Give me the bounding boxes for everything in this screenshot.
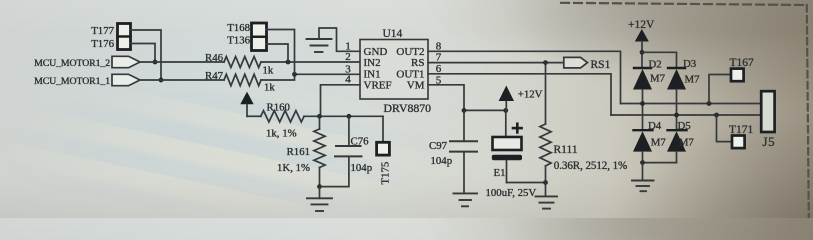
- resistor R47: [224, 74, 261, 85]
- port MCU_MOTOR1_2: [112, 56, 140, 67]
- svg-text:M7: M7: [651, 137, 667, 149]
- svg-text:M7: M7: [679, 137, 695, 149]
- svg-text:E1: E1: [494, 167, 506, 179]
- junction E1/R111 ground node: [543, 180, 548, 185]
- junction D3/D5 node on OUT1: [674, 113, 679, 118]
- junction VM/C97: [462, 108, 467, 113]
- svg-text:C76: C76: [351, 136, 370, 148]
- power arrow above R160: [240, 92, 253, 117]
- junction RS/R111: [543, 60, 548, 65]
- svg-text:2: 2: [345, 51, 351, 63]
- sheet border dashed top: [561, 3, 806, 5]
- wire T177 pin to MCU_MOTOR1_1 net: [131, 30, 162, 80]
- testpoint T171: [717, 115, 745, 148]
- diode D3: [667, 68, 686, 130]
- svg-text:J5: J5: [763, 134, 776, 149]
- resistor R161: [314, 116, 325, 186]
- plus sign E1: [512, 123, 523, 134]
- electrolytic capacitor E1: [492, 110, 522, 182]
- svg-text:U14: U14: [383, 28, 403, 40]
- svg-text:VM: VM: [407, 79, 425, 91]
- junction VREF node at R161: [317, 114, 322, 119]
- testpoint T167: [709, 69, 744, 104]
- svg-text:D4: D4: [648, 120, 662, 132]
- wire T176 pin to MCU_MOTOR1_2 net: [131, 44, 156, 63]
- svg-text:MCU_MOTOR1_2: MCU_MOTOR1_2: [34, 58, 110, 69]
- port RS1: [564, 57, 588, 68]
- svg-text:104p: 104p: [431, 155, 453, 167]
- capacitor C97: [450, 110, 477, 192]
- wire T168 pin to IN1 net: [267, 30, 295, 75]
- diode D4: [633, 130, 653, 162]
- junction VM/E1/+12V: [503, 108, 508, 113]
- wire pin4 VREF to rail: [321, 85, 361, 114]
- resistor R46: [224, 57, 261, 68]
- VM rail wire: [464, 109, 506, 111]
- svg-text:+12V: +12V: [518, 88, 543, 100]
- svg-text:1K, 1%: 1K, 1%: [277, 162, 310, 174]
- svg-text:T177: T177: [91, 25, 114, 37]
- svg-text:+12V: +12V: [628, 19, 655, 31]
- wire MOTOR1_1 net: port to R47: [140, 79, 224, 81]
- junction T168 on IN1 net: [292, 72, 297, 77]
- IC U14 DRV8870: [360, 40, 428, 100]
- svg-text:IN2: IN2: [364, 57, 381, 69]
- VREF rail wire: [320, 115, 384, 117]
- wire OUT2 to J5 pin1: [621, 103, 762, 105]
- svg-text:R161: R161: [287, 146, 310, 158]
- connector J5: [761, 91, 774, 132]
- svg-text:T168: T168: [227, 22, 250, 34]
- svg-text:T171: T171: [729, 124, 754, 136]
- junction +12V branch: [640, 50, 645, 55]
- svg-text:RS: RS: [411, 57, 424, 69]
- ground at pin1: [307, 39, 332, 52]
- svg-text:D5: D5: [678, 120, 691, 132]
- svg-text:R47: R47: [205, 70, 224, 82]
- wire R161 bottom to C76 bottom: [320, 156, 349, 186]
- resistor R111: [540, 63, 551, 196]
- svg-text:R46: R46: [205, 52, 224, 64]
- diode D2: [633, 68, 652, 130]
- wire +12V branch to D3: [642, 52, 677, 68]
- sheet border dashed right: [807, 5, 809, 218]
- wire pin7 RS: [428, 62, 564, 64]
- ground below R111/E1: [536, 196, 558, 208]
- svg-text:1k: 1k: [263, 65, 274, 77]
- power +12V top right: [635, 29, 649, 68]
- svg-text:D2: D2: [649, 58, 662, 70]
- junction at C76 drop: [347, 114, 352, 119]
- wire pin6 OUT1: [428, 74, 611, 115]
- svg-text:R160: R160: [267, 101, 290, 113]
- svg-text:0.36R, 2512, 1%: 0.36R, 2512, 1%: [554, 160, 627, 172]
- wire E1 bottom to R111 bottom: [507, 182, 546, 184]
- svg-text:T136: T136: [227, 35, 250, 47]
- svg-text:RS1: RS1: [591, 59, 611, 71]
- wire R46 to IC pin2 IN2: [261, 61, 360, 63]
- wire D4/D5 anodes to ground: [643, 162, 677, 164]
- svg-text:VREF: VREF: [364, 79, 392, 91]
- ground below R161: [307, 187, 332, 211]
- junction D4 ground node: [640, 160, 645, 165]
- svg-text:104p: 104p: [351, 162, 373, 174]
- svg-text:T175: T175: [380, 162, 392, 185]
- power +12V at VM: [499, 86, 514, 111]
- wire MOTOR1_2 net: port to R46: [140, 61, 224, 63]
- svg-text:D3: D3: [683, 58, 696, 70]
- junction on MOTOR1_2 net: [153, 60, 158, 65]
- connector P T168/T136: [252, 23, 267, 51]
- svg-text:7: 7: [436, 52, 442, 64]
- ground below C97: [454, 193, 478, 206]
- junction T167 on OUT2: [707, 101, 712, 106]
- junction D2/D4 node on OUT2: [640, 101, 645, 106]
- wire R160 to VREF junction: [304, 115, 319, 117]
- junction R161 bottom: [317, 184, 322, 189]
- svg-text:DRV8870: DRV8870: [384, 101, 432, 115]
- svg-text:M7: M7: [650, 72, 666, 84]
- diode D5: [667, 130, 687, 162]
- wire R47 to jog at T168 junction: [261, 74, 360, 80]
- port MCU_MOTOR1_1: [112, 74, 140, 85]
- svg-text:100uF, 25V: 100uF, 25V: [486, 187, 537, 199]
- svg-text:R111: R111: [554, 144, 578, 156]
- connector P T177/T176: [118, 24, 131, 50]
- wire pin5 VM: [428, 85, 464, 111]
- wire OUT1 to J5 pin2: [611, 114, 761, 116]
- wire T136 pin to IN2 net: [267, 44, 289, 62]
- ground below D4/D5: [632, 163, 654, 192]
- junction T136 on IN2 net: [286, 60, 291, 65]
- wire pin8 OUT2: [428, 51, 621, 103]
- resistor R160: [261, 111, 304, 122]
- svg-text:T167: T167: [730, 57, 755, 69]
- svg-text:1k: 1k: [264, 82, 275, 94]
- wire pin1 GND step: [319, 28, 360, 51]
- svg-text:MCU_MOTOR1_1: MCU_MOTOR1_1: [34, 76, 110, 87]
- junction on MOTOR1_1 net: [159, 78, 164, 83]
- svg-text:M7: M7: [685, 73, 701, 85]
- testpoint T175: [377, 116, 390, 155]
- svg-text:T176: T176: [91, 38, 114, 50]
- wire arrow to R160: [247, 115, 261, 117]
- svg-text:4: 4: [345, 74, 351, 86]
- junction T171 on OUT1: [714, 113, 719, 118]
- capacitor C76: [335, 116, 362, 156]
- svg-text:C97: C97: [429, 140, 448, 152]
- svg-text:1k, 1%: 1k, 1%: [266, 128, 297, 140]
